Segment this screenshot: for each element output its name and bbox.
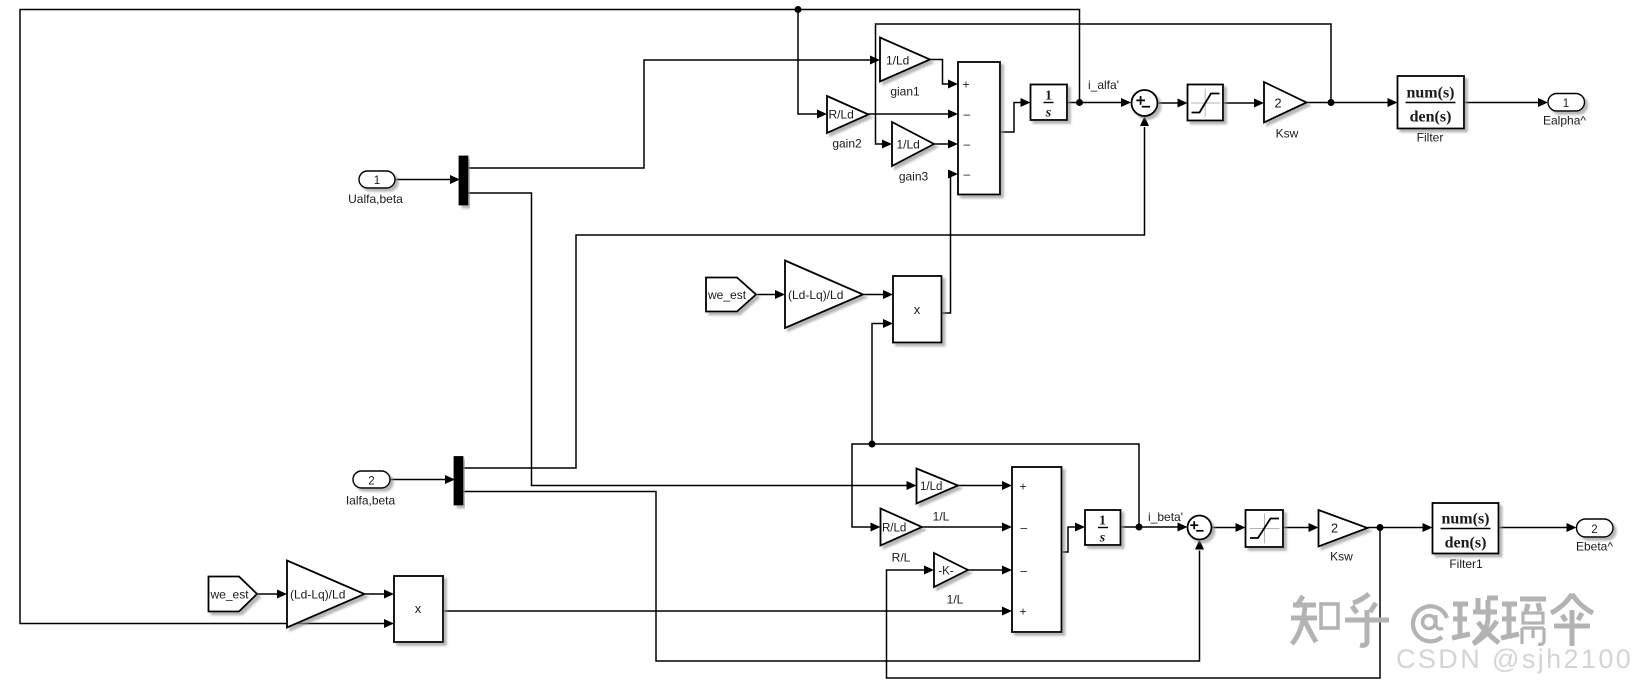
svg-text:Ealpha^: Ealpha^	[1543, 114, 1586, 128]
svg-text:i_beta': i_beta'	[1148, 510, 1183, 524]
wire sum2 to integrator 1/s1	[1062, 523, 1086, 553]
svg-text:2: 2	[368, 476, 374, 488]
node junction Ksw output	[1328, 99, 1335, 106]
wire saturation1 to Ksw1	[1283, 523, 1319, 532]
svg-text:CSDN @sjh2100: CSDN @sjh2100	[1396, 644, 1633, 674]
product block 1	[893, 276, 942, 343]
wire bar2 out1 measured i_alfa to sum circle 1 bottom	[463, 116, 1150, 468]
svg-text:x: x	[415, 601, 422, 616]
wire Ksw to Filter	[1307, 98, 1398, 107]
wire gain 1/L to sum2 in1	[958, 481, 1012, 490]
svg-text:s: s	[1099, 531, 1106, 546]
wire gain (Ld-Lq)/Ld to product1 in1	[863, 290, 893, 299]
inport 2 Ialfa,beta	[353, 471, 390, 488]
svg-text:gain2: gain2	[832, 137, 862, 151]
gain (Ld-Lq)/Ld (top)	[785, 261, 863, 329]
svg-text:gian1: gian1	[890, 85, 920, 99]
wire gain -K- to sum2 in3	[968, 566, 1012, 575]
wire input1 to demux bar1	[395, 175, 460, 184]
svg-text:1: 1	[1563, 98, 1569, 110]
gain (Ld-Lq)/Ld (bottom)	[287, 561, 365, 628]
svg-text:den(s): den(s)	[1410, 109, 1452, 126]
svg-text:Ksw: Ksw	[1330, 550, 1353, 564]
wire branch to gain2	[798, 10, 827, 119]
wire gian1 to sum1 in1	[930, 60, 958, 89]
wire bar2 out2 measured i_beta to sum circle 2 bottom	[463, 492, 1205, 662]
svg-text:Filter: Filter	[1417, 131, 1444, 145]
wire 1/s to sum circle 1	[1067, 98, 1131, 107]
inport 1 Ualfa,beta	[359, 171, 395, 188]
svg-text:1: 1	[1045, 89, 1052, 104]
wire gain (Ld-Lq)/Ld 2 to product2 in1	[365, 590, 395, 599]
gain gain2 R/Ld	[827, 96, 869, 133]
svg-text:R/L: R/L	[892, 551, 911, 565]
wire Ksw output feedback to gain3	[876, 24, 1332, 149]
wire sum circle 1 to saturation	[1158, 99, 1188, 108]
watermark hanzi zhi (知)	[1291, 596, 1338, 644]
sum block 1	[958, 62, 1000, 195]
wire bar1 out1 to gain gian1	[468, 56, 881, 169]
watermark at-sign	[1413, 606, 1447, 641]
svg-text:i_alfa': i_alfa'	[1088, 78, 1119, 92]
wire gain3 to sum1 in3	[934, 140, 958, 149]
watermark hanzi san (伞)	[1551, 594, 1593, 646]
wire we_est to gain (Ld-Lq)/Ld	[756, 290, 785, 299]
svg-text:Ualfa,beta: Ualfa,beta	[348, 192, 403, 206]
svg-text:Filter1: Filter1	[1449, 557, 1483, 571]
svg-text:num(s): num(s)	[1441, 511, 1489, 528]
wire i_alfa feedback loop left-edge to product2 input2	[20, 10, 1080, 629]
node junction i_beta'	[1136, 524, 1143, 531]
gain gian1 1/Ld	[880, 38, 930, 82]
svg-text:1: 1	[374, 175, 380, 187]
saturation1 block	[1246, 510, 1284, 547]
wire i_beta' feedback to gain R/L	[852, 444, 1139, 532]
transfer fcn Filter1	[1433, 503, 1499, 554]
gain Ksw1	[1319, 510, 1368, 547]
svg-text:(Ld-Lq)/Ld: (Ld-Lq)/Ld	[788, 288, 843, 302]
svg-text:2: 2	[1331, 521, 1338, 536]
svg-text:we_est: we_est	[707, 288, 747, 302]
svg-text:1/Ld: 1/Ld	[897, 138, 920, 152]
watermark hanzi bo (玻)	[1452, 598, 1499, 644]
node junction i_alfa loop	[795, 6, 802, 13]
svg-text:1/L: 1/L	[933, 510, 950, 524]
svg-text:gain3: gain3	[899, 170, 929, 184]
wire we_est2 to gain (Ld-Lq)/Ld 2	[257, 590, 287, 599]
svg-text:den(s): den(s)	[1445, 535, 1487, 552]
outport 1 Ealpha^	[1548, 94, 1585, 112]
svg-text:x: x	[914, 302, 921, 317]
svg-text:–: –	[1021, 521, 1028, 535]
watermark hanzi hu (乎)	[1345, 594, 1389, 645]
gain -K-	[934, 553, 968, 587]
wire bar1 out2 to gain 1/L	[468, 193, 917, 490]
svg-text:Ialfa,beta: Ialfa,beta	[346, 494, 396, 508]
svg-text:–: –	[964, 137, 971, 151]
svg-text:+: +	[963, 78, 970, 92]
svg-text:(Ld-Lq)/Ld: (Ld-Lq)/Ld	[290, 588, 345, 602]
svg-text:1: 1	[1099, 514, 1106, 529]
svg-text:–: –	[964, 107, 971, 121]
svg-text:Ebeta^: Ebeta^	[1576, 540, 1613, 554]
from tag we_est (top)	[706, 278, 756, 312]
sum circle 1	[1132, 90, 1158, 116]
wire Filter to output1	[1464, 98, 1548, 107]
wire input2 to demux bar2	[390, 475, 455, 484]
wire gain2 to sum1 in2	[869, 110, 959, 119]
svg-text:1/Ld: 1/Ld	[920, 481, 942, 493]
svg-text:num(s): num(s)	[1406, 85, 1454, 102]
node junction i_alfa'	[1076, 99, 1083, 106]
wire Ksw1 to Filter1	[1368, 523, 1433, 532]
svg-text:R/Ld: R/Ld	[829, 108, 854, 122]
svg-text:+: +	[1020, 605, 1027, 619]
wire sum1 to integrator 1/s	[1000, 98, 1031, 132]
node junction Ksw1 output	[1377, 524, 1384, 531]
wire branch i_beta' to product1 in2	[872, 319, 893, 444]
gain gain3 1/Ld	[892, 122, 934, 166]
wire Filter1 to output2	[1499, 523, 1577, 532]
svg-text:+: +	[1020, 480, 1027, 494]
integrator 1/s	[1031, 85, 1068, 121]
svg-text:1/L: 1/L	[947, 593, 964, 607]
gain R/L (R/Ld)	[881, 509, 923, 546]
svg-text:Ksw: Ksw	[1276, 127, 1299, 141]
wire sum circle 2 to saturation1	[1212, 523, 1246, 532]
gain Ksw	[1264, 82, 1307, 123]
svg-text:1/Ld: 1/Ld	[886, 54, 909, 68]
sum circle 2	[1188, 516, 1212, 540]
sum block 2	[1012, 467, 1062, 632]
demux bar1	[460, 157, 468, 205]
product block 2	[394, 576, 443, 642]
transfer fcn Filter	[1398, 76, 1465, 129]
svg-text:we_est: we_est	[210, 588, 250, 602]
watermark hanzi li (璃)	[1501, 599, 1546, 644]
wire Ksw1 output feedback to gain -K-	[887, 528, 1381, 679]
saturation block	[1188, 85, 1224, 121]
svg-text:–: –	[964, 167, 971, 181]
svg-text:s: s	[1045, 106, 1052, 121]
from tag we_est (bottom)	[209, 577, 258, 612]
wire product1 to sum1 in4	[942, 170, 959, 314]
wire gain R/L to sum2 in2	[922, 523, 1012, 532]
wire 1/s1 to sum circle 2	[1121, 523, 1188, 532]
integrator 1/s1	[1085, 510, 1121, 546]
svg-text:–: –	[1021, 564, 1028, 578]
svg-text:R/Ld: R/Ld	[882, 523, 906, 535]
node junction i_beta' feedback	[869, 441, 876, 448]
svg-text:2: 2	[1591, 524, 1597, 536]
demux bar2	[455, 457, 463, 505]
svg-text:2: 2	[1274, 96, 1281, 111]
outport 2 Ebeta^	[1577, 519, 1614, 537]
gain 1/L (1/Ld)	[917, 469, 959, 504]
wire product2 to sum2 in4	[443, 607, 1012, 616]
wire saturation to Ksw	[1223, 99, 1264, 108]
svg-text:-K-: -K-	[938, 566, 954, 578]
